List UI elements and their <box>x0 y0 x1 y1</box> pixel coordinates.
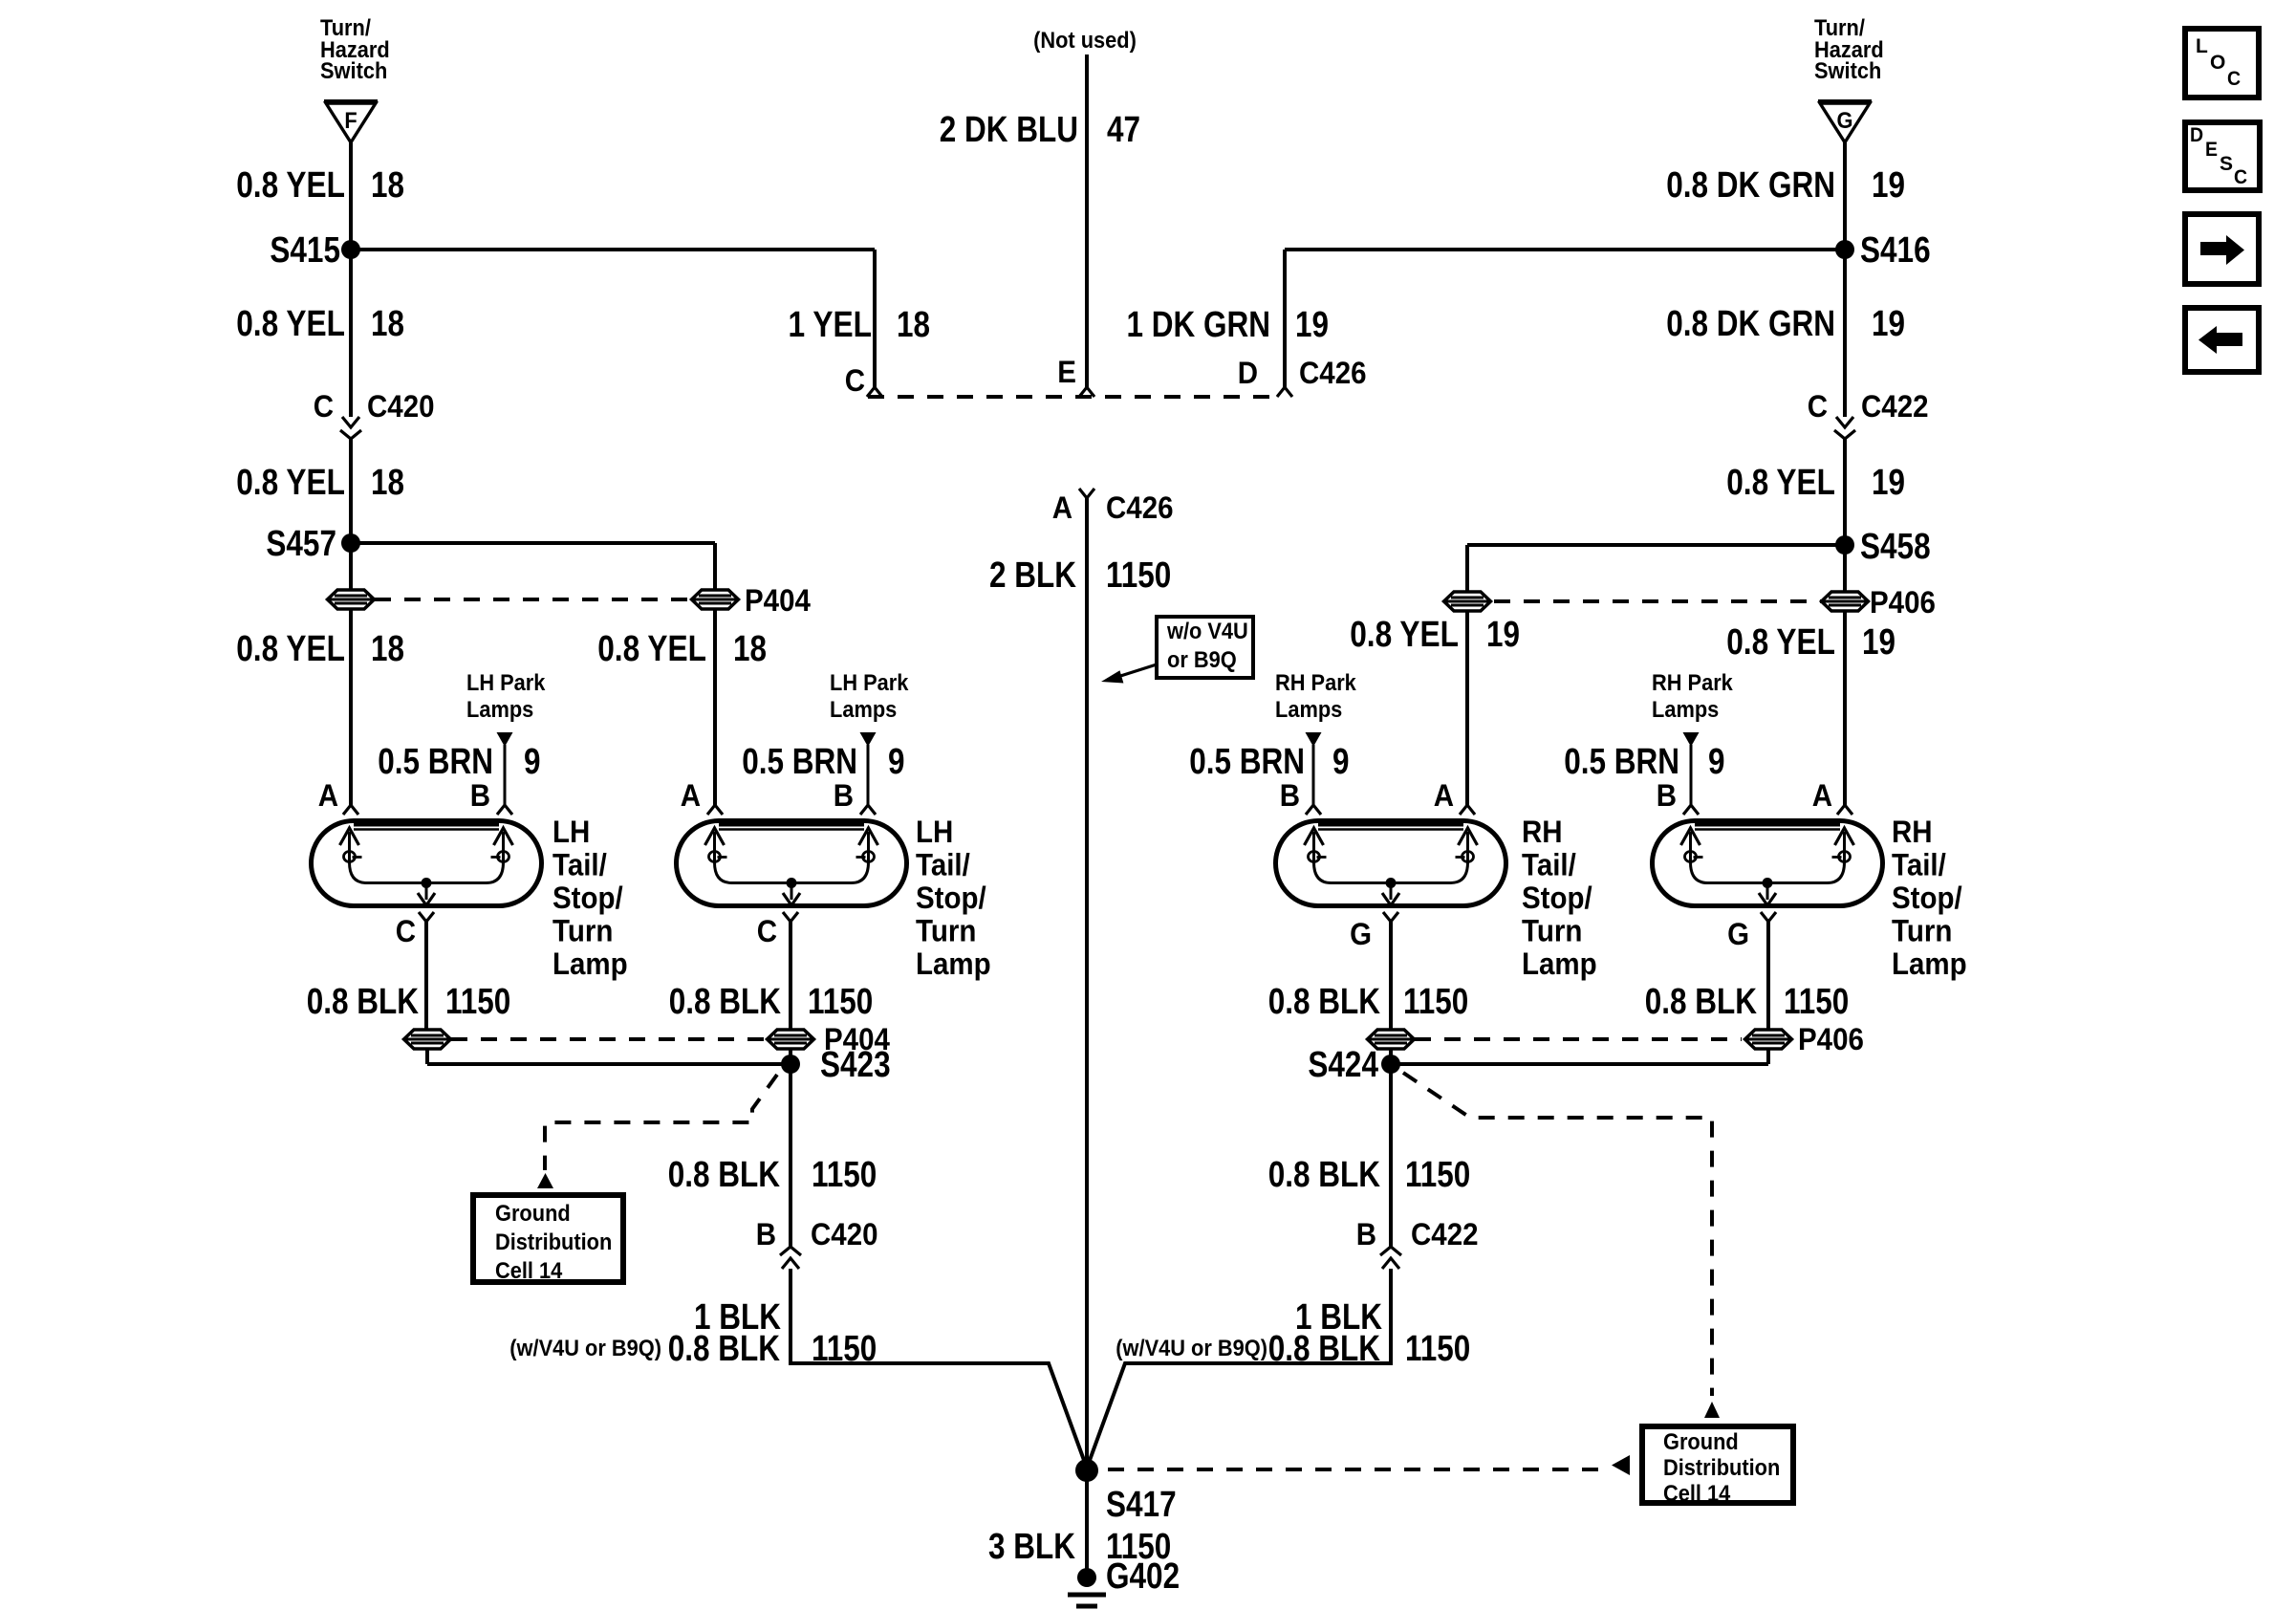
pass-through grommet P406 (right outer) <box>1822 592 1869 611</box>
in-line connector C426 dashed body <box>868 395 1278 399</box>
svg-text:9: 9 <box>1332 742 1350 782</box>
wire 0.8 BLK 1150 from lamp4 pin G <box>1766 922 1770 1030</box>
svg-text:0.8 BLK: 0.8 BLK <box>1268 982 1381 1022</box>
svg-text:Turn: Turn <box>552 913 613 947</box>
svg-text:RH: RH <box>1522 815 1563 849</box>
svg-text:G402: G402 <box>1106 1556 1180 1597</box>
svg-text:0.8 BLK: 0.8 BLK <box>669 982 782 1022</box>
svg-text:B: B <box>1280 778 1300 813</box>
dashed link P404 <box>375 598 690 601</box>
svg-text:1150: 1150 <box>812 1155 877 1195</box>
LH Tail/Stop/Turn Lamp (inner) bulb <box>677 821 907 906</box>
pin A connector fork <box>1460 805 1475 815</box>
svg-text:1150: 1150 <box>1405 1329 1470 1369</box>
pin E connector fork <box>1079 387 1094 397</box>
svg-text:1150: 1150 <box>1784 982 1849 1022</box>
svg-text:3 BLK: 3 BLK <box>988 1527 1075 1567</box>
svg-text:O: O <box>2210 52 2225 74</box>
legend icon DESC <box>2185 122 2260 190</box>
pin B connector fork <box>1306 805 1321 815</box>
ground G402 terminal <box>1077 1568 1096 1587</box>
svg-text:0.8 YEL: 0.8 YEL <box>236 165 345 206</box>
svg-text:C: C <box>845 363 865 398</box>
svg-text:S424: S424 <box>1308 1045 1378 1085</box>
svg-text:F: F <box>344 108 357 134</box>
svg-text:RH: RH <box>1892 815 1933 849</box>
wire 0.8 BLK 1150 from lamp2 pin C <box>789 922 792 1030</box>
svg-text:0.8 YEL: 0.8 YEL <box>1350 615 1459 655</box>
svg-text:A: A <box>1812 778 1832 813</box>
svg-text:S417: S417 <box>1106 1485 1177 1525</box>
wire 3 BLK 1150 from S417 to G402 <box>1085 1470 1089 1577</box>
legend icon LOC <box>2185 29 2259 98</box>
svg-text:G: G <box>1350 917 1372 951</box>
svg-text:Distribution: Distribution <box>1663 1455 1780 1481</box>
svg-text:Cell 14: Cell 14 <box>1663 1481 1731 1507</box>
svg-text:Cell 14: Cell 14 <box>495 1258 563 1284</box>
pin A connector fork <box>1837 805 1852 815</box>
wire 0.5 BRN 9 stub <box>1312 745 1315 806</box>
svg-text:C422: C422 <box>1861 389 1929 424</box>
wire corner into S417 (right) <box>1089 1363 1391 1463</box>
wire S416 to C426 pin D branch <box>1285 248 1845 251</box>
pin G connector fork <box>1761 912 1776 922</box>
svg-text:0.8 YEL: 0.8 YEL <box>597 629 706 669</box>
svg-text:G: G <box>1727 917 1749 951</box>
LH Tail/Stop/Turn Lamp (outer) bulb <box>312 821 542 906</box>
svg-text:S416: S416 <box>1860 230 1931 271</box>
svg-text:Stop/: Stop/ <box>552 881 623 915</box>
svg-text:LH: LH <box>916 815 953 849</box>
svg-text:1150: 1150 <box>445 982 510 1022</box>
svg-text:18: 18 <box>733 629 767 669</box>
svg-text:0.5 BRN: 0.5 BRN <box>1564 742 1679 782</box>
svg-text:Tail/: Tail/ <box>1892 848 1946 882</box>
svg-text:Turn: Turn <box>1892 913 1952 947</box>
dashed link P404 lower <box>451 1037 765 1041</box>
svg-text:A: A <box>318 778 338 813</box>
svg-text:D: D <box>2190 124 2203 146</box>
svg-text:B: B <box>470 778 490 813</box>
splice S458 <box>1835 535 1854 555</box>
svg-text:C: C <box>2227 68 2241 90</box>
svg-text:P406: P406 <box>1798 1022 1864 1056</box>
svg-text:Stop/: Stop/ <box>1892 881 1962 915</box>
legend icon back arrow <box>2185 308 2259 372</box>
svg-text:Lamp: Lamp <box>552 946 628 981</box>
svg-text:P406: P406 <box>1870 585 1936 620</box>
svg-text:Switch: Switch <box>320 58 387 84</box>
svg-text:Stop/: Stop/ <box>916 881 986 915</box>
svg-text:Lamp: Lamp <box>916 946 991 981</box>
svg-text:B: B <box>1356 1217 1376 1251</box>
svg-text:0.8 YEL: 0.8 YEL <box>1726 622 1835 663</box>
callout box Ground Distribution Cell 14 (left) <box>473 1195 623 1282</box>
wire 0.8 YEL 18 from P404 to lamp pin A <box>349 609 353 806</box>
svg-text:(w/V4U or B9Q): (w/V4U or B9Q) <box>509 1336 661 1361</box>
wire S457 branch down to P404 <box>713 543 717 590</box>
svg-text:19: 19 <box>1862 622 1895 663</box>
svg-text:C426: C426 <box>1106 490 1174 525</box>
svg-text:A: A <box>1434 778 1454 813</box>
svg-text:G: G <box>1837 108 1853 134</box>
svg-text:1 YEL: 1 YEL <box>789 305 873 345</box>
pin C connector fork <box>783 912 798 922</box>
in-line connector C420 pin C <box>342 417 359 427</box>
svg-text:E: E <box>1057 355 1076 389</box>
svg-text:LH: LH <box>552 815 590 849</box>
wire S458 down to pass-through P406 <box>1843 545 1847 592</box>
svg-text:Switch: Switch <box>1814 58 1881 84</box>
svg-text:S423: S423 <box>820 1045 891 1085</box>
callout box Ground Distribution Cell 14 (right) <box>1642 1426 1793 1503</box>
wire 1 BLK / 0.8 BLK 1150 from C422 to S417 <box>1389 1269 1393 1365</box>
svg-text:C: C <box>2234 166 2247 188</box>
callout arrow line <box>1115 664 1157 678</box>
dashed link P406 <box>1494 599 1821 603</box>
splice S415 <box>341 240 360 259</box>
svg-text:Lamps: Lamps <box>1652 697 1719 723</box>
svg-text:19: 19 <box>1872 165 1905 206</box>
svg-text:0.5 BRN: 0.5 BRN <box>742 742 857 782</box>
pass-through grommet P404 (left outer) <box>328 590 375 609</box>
pin B connector fork <box>1683 805 1699 815</box>
svg-text:0.8 DK GRN: 0.8 DK GRN <box>1666 304 1835 344</box>
wire 0.8 YEL 19 from P406 to lamp3 pin A <box>1465 611 1469 806</box>
svg-text:B: B <box>1657 778 1677 813</box>
splice S423 <box>781 1055 800 1074</box>
svg-text:LH Park: LH Park <box>830 670 909 696</box>
pin A connector fork <box>343 805 358 815</box>
pin D connector fork <box>1277 387 1292 397</box>
wire 0.5 BRN 9 stub <box>504 745 507 806</box>
svg-text:19: 19 <box>1295 305 1329 345</box>
svg-text:C: C <box>396 914 416 948</box>
in-line connector C422 pin B <box>1380 1247 1401 1255</box>
RH Park Lamps feed arrow (inner) <box>1306 732 1322 747</box>
svg-text:Lamps: Lamps <box>466 697 533 723</box>
svg-text:Turn: Turn <box>916 913 976 947</box>
svg-text:Turn: Turn <box>1522 913 1582 947</box>
svg-text:0.8 BLK: 0.8 BLK <box>668 1329 781 1369</box>
svg-text:9: 9 <box>1708 742 1725 782</box>
svg-text:Lamps: Lamps <box>830 697 897 723</box>
svg-text:C: C <box>314 389 334 424</box>
wire 0.5 BRN 9 stub <box>867 745 870 806</box>
wire 0.5 BRN 9 stub <box>1690 745 1693 806</box>
svg-text:Tail/: Tail/ <box>552 848 607 882</box>
svg-text:RH Park: RH Park <box>1652 670 1733 696</box>
pin C connector fork <box>419 912 434 922</box>
wire 0.8 YEL 18 from P404 to lamp2 pin A <box>713 609 717 806</box>
pin B connector fork <box>497 805 512 815</box>
wire P404 to corner <box>425 1049 429 1064</box>
svg-text:L: L <box>2196 35 2208 57</box>
svg-text:19: 19 <box>1486 615 1520 655</box>
svg-text:18: 18 <box>371 629 404 669</box>
svg-text:9: 9 <box>888 742 905 782</box>
callout box w/o V4U or B9Q <box>1157 617 1253 678</box>
svg-text:1150: 1150 <box>808 982 873 1022</box>
dashed reference from S423 to Ground Distribution Cell 14 <box>545 1075 777 1170</box>
wire S415 to C426 pin C branch <box>351 248 875 251</box>
svg-text:0.8 YEL: 0.8 YEL <box>236 629 345 669</box>
svg-text:9: 9 <box>524 742 541 782</box>
RH Tail/Stop/Turn Lamp (inner) bulb <box>1276 821 1506 906</box>
svg-text:RH Park: RH Park <box>1275 670 1356 696</box>
ground symbol G402 <box>1068 1593 1106 1598</box>
wire 1 DK GRN 19 from S416 branch to C426 pin D <box>1283 250 1287 388</box>
RH Tail/Stop/Turn Lamp (outer) bulb <box>1653 821 1883 906</box>
svg-text:B: B <box>756 1217 776 1251</box>
switch F symbol (Turn/Hazard Switch terminal F) <box>324 99 378 103</box>
in-line connector C422 pin C <box>1836 417 1853 427</box>
wire 0.8 DK GRN 19 from switch G to S416 <box>1843 142 1847 250</box>
svg-text:Lamp: Lamp <box>1892 946 1967 981</box>
svg-text:1150: 1150 <box>1403 982 1468 1022</box>
pass-through grommet P404 (left inner) <box>692 590 739 609</box>
svg-text:18: 18 <box>371 165 404 206</box>
svg-text:LH Park: LH Park <box>466 670 546 696</box>
svg-text:19: 19 <box>1872 463 1905 503</box>
svg-text:S458: S458 <box>1860 527 1931 567</box>
svg-text:C422: C422 <box>1411 1217 1479 1251</box>
pin A fork of C426 <box>1079 489 1094 498</box>
svg-text:D: D <box>1238 356 1258 390</box>
wire 0.8 BLK 1150 from lamp1 pin C <box>424 922 428 1030</box>
svg-text:A: A <box>1052 490 1072 525</box>
svg-text:or B9Q: or B9Q <box>1167 647 1237 673</box>
svg-text:C420: C420 <box>367 389 435 424</box>
svg-text:1 DK GRN: 1 DK GRN <box>1127 305 1271 345</box>
svg-text:1150: 1150 <box>1106 555 1171 596</box>
svg-text:0.8 BLK: 0.8 BLK <box>1268 1155 1381 1195</box>
svg-text:0.8 DK GRN: 0.8 DK GRN <box>1666 165 1835 206</box>
svg-text:Ground: Ground <box>1663 1429 1739 1455</box>
pin G connector fork <box>1383 912 1398 922</box>
wire 0.8 YEL 18 from S415 to C420 <box>349 250 353 417</box>
svg-text:0.8 BLK: 0.8 BLK <box>668 1155 781 1195</box>
svg-text:Stop/: Stop/ <box>1522 881 1592 915</box>
svg-text:S457: S457 <box>266 524 336 564</box>
splice S424 <box>1381 1055 1400 1074</box>
wire to S423 <box>427 1062 791 1066</box>
LH Park Lamps feed arrow (inner) <box>860 732 877 747</box>
svg-text:C420: C420 <box>811 1217 878 1251</box>
pass-through grommet P404 (lower left outer) <box>404 1030 451 1049</box>
in-line connector C420 pin B <box>780 1247 801 1255</box>
svg-text:18: 18 <box>371 304 404 344</box>
svg-text:0.8 YEL: 0.8 YEL <box>1726 463 1835 503</box>
pin B connector fork <box>860 805 876 815</box>
wire 0.8 DK GRN 19 from S416 to C422 <box>1843 250 1847 417</box>
svg-text:Lamp: Lamp <box>1522 946 1597 981</box>
wire P404 to S423 <box>789 1049 792 1064</box>
splice S416 <box>1835 240 1854 259</box>
svg-text:0.5 BRN: 0.5 BRN <box>378 742 493 782</box>
svg-text:S415: S415 <box>270 230 340 271</box>
svg-text:Tail/: Tail/ <box>916 848 970 882</box>
svg-text:E: E <box>2205 139 2218 161</box>
svg-text:A: A <box>681 778 701 813</box>
svg-text:w/o V4U: w/o V4U <box>1166 619 1248 644</box>
wire 1 BLK / 0.8 BLK 1150 from C420 to S417 <box>789 1269 792 1365</box>
svg-text:Lamps: Lamps <box>1275 697 1342 723</box>
pin C connector fork <box>867 387 882 397</box>
wire 0.8 YEL 18 from C420 to S457 <box>349 439 353 543</box>
dashed reference from S424 to Ground Distribution Cell 14 <box>1403 1073 1712 1396</box>
wire S457 down to pass-through P404 <box>349 543 353 590</box>
dashed link P406 lower <box>1415 1037 1742 1041</box>
pass-through grommet P406 (right inner) <box>1444 592 1491 611</box>
svg-text:P404: P404 <box>745 583 811 618</box>
svg-text:S: S <box>2220 153 2233 175</box>
LH Park Lamps feed arrow <box>497 732 513 747</box>
pass-through grommet P406 (lower right inner) <box>1368 1030 1415 1049</box>
svg-text:C426: C426 <box>1299 356 1367 390</box>
arrowhead to Ground Distribution (right) <box>1704 1402 1720 1418</box>
wire 0.8 BLK 1150 from S424 to C422 <box>1389 1064 1393 1247</box>
svg-text:Tail/: Tail/ <box>1522 848 1576 882</box>
splice S417 <box>1075 1459 1098 1482</box>
wire 0.8 BLK 1150 from lamp3 pin G <box>1389 922 1393 1030</box>
wire 0.8 YEL 19 from P406 to lamp4 pin A <box>1843 611 1847 806</box>
dashed reference from S417 to Ground Distribution Cell 14 <box>1108 1468 1612 1471</box>
wire P406 to corner <box>1766 1049 1770 1064</box>
svg-text:2 BLK: 2 BLK <box>989 555 1076 596</box>
RH Park Lamps feed arrow (outer) <box>1683 732 1700 747</box>
svg-text:19: 19 <box>1872 304 1905 344</box>
wire 1 YEL 18 from S415 branch to C426 pin C <box>873 250 877 388</box>
wire S458 to RH inner tail lamp branch <box>1467 543 1845 547</box>
splice S457 <box>341 533 360 553</box>
wire corner into S417 (left) <box>791 1363 1085 1463</box>
callout arrowhead <box>1101 670 1123 683</box>
svg-text:47: 47 <box>1107 110 1140 150</box>
svg-text:0.5 BRN: 0.5 BRN <box>1189 742 1305 782</box>
wire S458 branch down to P406 <box>1465 545 1469 592</box>
wire P406 to S424 <box>1389 1049 1393 1064</box>
svg-text:0.8 YEL: 0.8 YEL <box>236 463 345 503</box>
pass-through grommet P404 (lower left inner) <box>768 1030 814 1049</box>
wire 0.8 BLK 1150 from S423 to C420 <box>789 1064 792 1247</box>
wire S457 to LH inner tail lamp branch <box>351 541 715 545</box>
wire 2 BLK 1150 from C426 pin A to S417 <box>1085 498 1089 1460</box>
arrowhead to Ground Distribution <box>537 1173 553 1188</box>
svg-text:Ground: Ground <box>495 1201 571 1227</box>
svg-text:0.8 BLK: 0.8 BLK <box>307 982 420 1022</box>
svg-text:Distribution: Distribution <box>495 1229 612 1255</box>
legend icon forward arrow <box>2185 214 2259 284</box>
arrowhead to Ground Distribution (S417) <box>1612 1455 1630 1475</box>
svg-text:18: 18 <box>897 305 930 345</box>
switch G symbol (Turn/Hazard Switch terminal G) <box>1818 99 1872 103</box>
svg-text:C: C <box>1808 389 1828 424</box>
pass-through grommet P406 (lower right outer) <box>1745 1030 1792 1049</box>
svg-text:0.8 BLK: 0.8 BLK <box>1645 982 1758 1022</box>
wire 2 DK BLU 47 (not used) to C426 pin E <box>1085 54 1089 388</box>
svg-text:2 DK BLU: 2 DK BLU <box>940 110 1078 150</box>
svg-text:0.8 YEL: 0.8 YEL <box>236 304 345 344</box>
svg-text:(Not used): (Not used) <box>1033 28 1137 54</box>
svg-text:18: 18 <box>371 463 404 503</box>
pin A connector fork <box>707 805 723 815</box>
svg-text:C: C <box>757 914 777 948</box>
svg-text:(w/V4U or B9Q): (w/V4U or B9Q) <box>1116 1336 1267 1361</box>
wire 0.8 YEL 19 from C422 to S458 <box>1843 439 1847 545</box>
wire to S424 <box>1391 1062 1768 1066</box>
wire 0.8 YEL 18 from switch F to S415 <box>349 142 353 250</box>
svg-text:B: B <box>834 778 854 813</box>
svg-text:1150: 1150 <box>1405 1155 1470 1195</box>
